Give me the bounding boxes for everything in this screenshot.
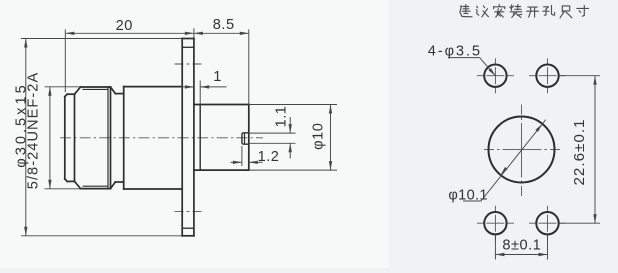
svg-text:5/8-24UNEF-2A: 5/8-24UNEF-2A [26, 72, 42, 189]
svg-text:8.5: 8.5 [213, 17, 235, 33]
svg-text:20: 20 [116, 18, 133, 34]
svg-text:8±0.1: 8±0.1 [502, 237, 541, 253]
svg-text:1: 1 [213, 69, 222, 85]
svg-text:1.1: 1.1 [274, 106, 290, 128]
svg-text:22.6±0.1: 22.6±0.1 [571, 118, 588, 185]
svg-text:1.2: 1.2 [258, 149, 280, 165]
svg-text:φ10: φ10 [310, 123, 326, 150]
svg-text:4-φ3.5: 4-φ3.5 [428, 44, 482, 60]
